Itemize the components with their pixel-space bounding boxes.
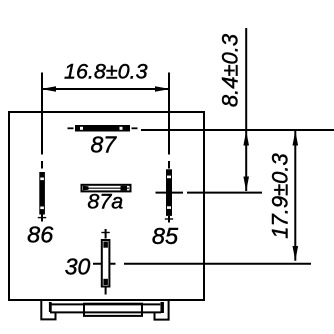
svg-text:17.9±0.3: 17.9±0.3 <box>268 153 293 239</box>
svg-text:85: 85 <box>152 223 179 249</box>
svg-text:16.8±0.3: 16.8±0.3 <box>64 60 148 84</box>
svg-text:86: 86 <box>27 222 54 248</box>
svg-text:87: 87 <box>91 131 118 157</box>
svg-text:30: 30 <box>65 254 91 280</box>
svg-text:87a: 87a <box>87 190 123 214</box>
svg-text:8.4±0.3: 8.4±0.3 <box>217 33 242 107</box>
